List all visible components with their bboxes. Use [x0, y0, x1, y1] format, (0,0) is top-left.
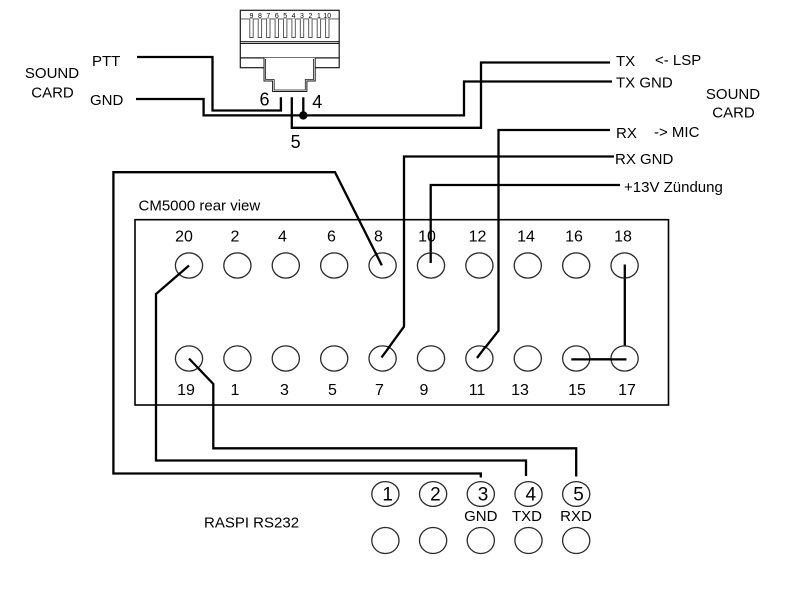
- CM5000 top row pin holes (20,2,4,...,18): [175, 253, 638, 278]
- svg-text:5: 5: [283, 13, 287, 20]
- svg-text:8: 8: [258, 13, 262, 20]
- svg-text:2: 2: [430, 485, 441, 506]
- svg-text:8: 8: [374, 229, 383, 246]
- svg-text:4: 4: [312, 92, 322, 112]
- svg-text:CM5000 rear view: CM5000 rear view: [139, 198, 261, 215]
- wire +13V to CM5000 pin 10: [431, 185, 620, 263]
- svg-text:GND: GND: [464, 508, 498, 525]
- svg-text:4: 4: [278, 229, 287, 246]
- svg-text:4: 4: [526, 485, 537, 506]
- svg-text:6: 6: [259, 90, 269, 110]
- wire tail into pin 20: [179, 266, 190, 275]
- wire J1 pin 4 stub: [302, 97, 304, 115]
- svg-text:6: 6: [275, 13, 279, 20]
- svg-text:2: 2: [308, 13, 312, 20]
- wire tail into pin 18: [624, 265, 626, 279]
- svg-text:RX: RX: [616, 125, 637, 142]
- CM5000 connector body: [135, 220, 669, 405]
- RASPI bottom row pin holes: [372, 528, 590, 554]
- svg-text:11: 11: [469, 382, 486, 399]
- svg-text:2: 2: [231, 229, 240, 246]
- CM5000 top row pin numbers: [175, 229, 632, 246]
- svg-text:6: 6: [327, 229, 336, 246]
- svg-text:4: 4: [292, 13, 296, 20]
- wire tail into pin 11: [477, 347, 486, 358]
- wire CM5000 pin 20 to RASPI pin 4 TXD: [156, 266, 526, 477]
- svg-text:1: 1: [231, 382, 240, 399]
- svg-text:18: 18: [614, 229, 632, 246]
- svg-text:10: 10: [323, 13, 331, 20]
- wire tail into pin 7: [382, 346, 391, 358]
- svg-text:19: 19: [177, 382, 195, 399]
- svg-text:7: 7: [375, 382, 384, 399]
- svg-text:1: 1: [317, 13, 321, 20]
- wire J1 pin 5 to TX: [292, 63, 610, 128]
- svg-text:15: 15: [568, 382, 586, 399]
- wire CM5000 pin 18 to pin 17: [624, 265, 626, 360]
- svg-text:<- LSP: <- LSP: [655, 52, 701, 69]
- svg-text:5: 5: [328, 382, 337, 399]
- svg-text:14: 14: [517, 229, 535, 246]
- wire CM5000 pin 15 to pin 17: [571, 358, 626, 360]
- wire GND to J1 pin 4 and TX GND: [136, 82, 612, 116]
- svg-text:13: 13: [511, 382, 529, 399]
- svg-text:PTT: PTT: [92, 53, 120, 70]
- svg-text:5: 5: [291, 132, 301, 152]
- svg-text:5: 5: [573, 485, 584, 506]
- wire tail pins 15-17: [571, 358, 626, 360]
- svg-text:SOUND: SOUND: [25, 65, 79, 82]
- connector J1 pin numbers 9..1,10: [250, 13, 332, 20]
- wire tail into pin 19: [189, 359, 199, 370]
- svg-text:SOUND: SOUND: [706, 86, 760, 103]
- junction dot node pin4/GND: [299, 111, 307, 119]
- svg-text:TXD: TXD: [512, 508, 542, 525]
- svg-text:7: 7: [266, 13, 270, 20]
- svg-text:20: 20: [175, 229, 193, 246]
- svg-text:9: 9: [420, 382, 429, 399]
- CM5000 bottom row pin holes (19,1,3,...,17): [175, 346, 638, 371]
- connector J1 plug cavity (latch opening): [264, 58, 315, 92]
- CM5000 bottom row pin numbers: [177, 382, 636, 399]
- wire PTT to J1 pin 6: [137, 57, 281, 111]
- svg-text:+13V Zündung: +13V Zündung: [624, 179, 723, 196]
- wire tail into pin 10: [430, 253, 432, 263]
- svg-text:10: 10: [418, 229, 436, 246]
- svg-text:CARD: CARD: [31, 85, 74, 102]
- wire tail into pin 8: [375, 252, 382, 265]
- svg-text:17: 17: [618, 382, 636, 399]
- connector J1 top line under pin numbers: [240, 18, 339, 20]
- RASPI pin digits 1-5: [382, 485, 583, 506]
- svg-text:3: 3: [300, 13, 304, 20]
- svg-text:3: 3: [280, 382, 289, 399]
- svg-text:3: 3: [478, 485, 489, 506]
- svg-text:TX GND: TX GND: [616, 75, 673, 92]
- svg-text:12: 12: [469, 229, 487, 246]
- wire RX GND to CM5000 pin 7: [382, 157, 615, 358]
- svg-text:-> MIC: -> MIC: [654, 124, 700, 141]
- RASPI top row pin holes 1-5: [372, 482, 590, 507]
- svg-text:9: 9: [250, 13, 254, 20]
- svg-text:RXD: RXD: [560, 508, 592, 525]
- svg-text:RX GND: RX GND: [615, 151, 674, 168]
- wire CM5000 pin 19 to RASPI pin 5 RXD: [189, 359, 576, 477]
- wire CM5000 pin 8 to RASPI pin 3 GND: [113, 172, 480, 477]
- svg-text:TX: TX: [616, 53, 635, 70]
- connector J1 pin slot contacts: [250, 19, 329, 38]
- wire RX to CM5000 pin 11: [477, 130, 610, 358]
- svg-text:GND: GND: [90, 92, 124, 109]
- svg-text:1: 1: [382, 485, 393, 506]
- connector J1 RJ45 jack body: [240, 10, 339, 67]
- svg-text:RASPI RS232: RASPI RS232: [204, 515, 299, 532]
- svg-text:16: 16: [565, 229, 583, 246]
- svg-text:CARD: CARD: [712, 105, 755, 122]
